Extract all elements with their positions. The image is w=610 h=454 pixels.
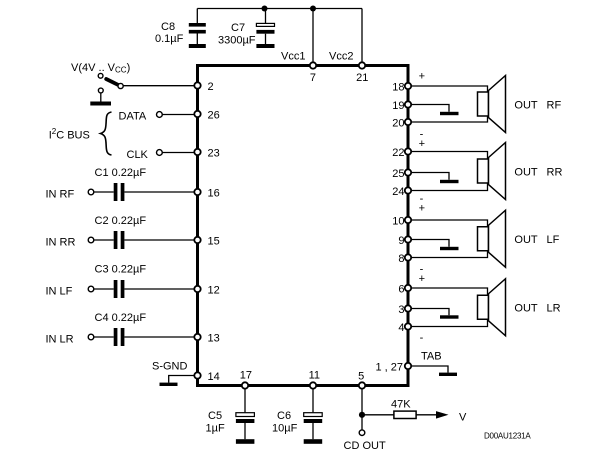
svg-text:14: 14 xyxy=(208,371,220,383)
svg-text:19: 19 xyxy=(392,100,404,112)
svg-text:1µF: 1µF xyxy=(206,423,225,435)
svg-text:C4 0.22µF: C4 0.22µF xyxy=(95,312,147,324)
ground below C8 xyxy=(189,44,206,48)
wire pin 5 to CD OUT xyxy=(361,387,363,430)
ground TAB xyxy=(439,373,457,376)
ground below C7 xyxy=(256,44,274,48)
svg-text:16: 16 xyxy=(208,188,220,200)
ground OUT RR xyxy=(440,180,459,183)
switch SW1 (V(4V .. Vcc)) xyxy=(71,62,194,102)
speaker OUT RR wiring - xyxy=(412,183,488,191)
svg-text:25: 25 xyxy=(392,168,404,180)
pin 2 xyxy=(194,81,213,93)
input IN LR / capacitor C4 xyxy=(46,312,195,346)
pin 9 xyxy=(398,235,411,247)
input IN LF / capacitor C3 xyxy=(46,264,195,299)
svg-text:7: 7 xyxy=(310,72,316,84)
svg-text:DATA: DATA xyxy=(119,111,147,123)
wire top supply rail xyxy=(197,8,362,10)
speaker OUT LF ground wire xyxy=(412,240,449,247)
speaker OUT LR ground wire xyxy=(412,309,449,316)
wire Vcc2 branch to pin 21 xyxy=(361,9,363,65)
svg-text:IN LF: IN LF xyxy=(46,286,73,298)
loudspeaker OUT RF xyxy=(478,76,506,133)
pin 8 xyxy=(398,253,411,265)
svg-text:20: 20 xyxy=(392,118,404,130)
svg-text:+: + xyxy=(419,138,425,150)
svg-text:IN RF: IN RF xyxy=(46,189,75,201)
svg-text:IN RR: IN RR xyxy=(46,237,76,249)
pin 24 xyxy=(392,186,411,198)
svg-text:10: 10 xyxy=(392,216,404,228)
pin 11 xyxy=(309,369,320,388)
svg-text:17: 17 xyxy=(240,369,252,381)
pin 15 xyxy=(194,236,219,248)
speaker OUT RF wiring - xyxy=(412,116,488,122)
svg-text:D00AU1231A: D00AU1231A xyxy=(484,432,531,441)
ground S-GND xyxy=(160,383,178,386)
svg-text:0.1µF: 0.1µF xyxy=(155,33,184,45)
svg-text:OUTLF: OUTLF xyxy=(514,234,559,246)
svg-text:18: 18 xyxy=(392,82,404,94)
svg-text:3300µF: 3300µF xyxy=(218,35,256,47)
wire Vcc1 branch to pin 7 xyxy=(312,9,314,65)
svg-text:13: 13 xyxy=(208,333,220,345)
svg-text:2: 2 xyxy=(208,81,214,93)
pin 22 xyxy=(392,147,411,159)
speaker OUT LR wiring + xyxy=(412,288,488,295)
capacitor C5 (polarized) xyxy=(206,387,255,439)
pin 21 xyxy=(356,62,368,84)
arrow to V xyxy=(436,411,449,419)
svg-text:24: 24 xyxy=(392,186,404,198)
speaker OUT RR wiring + xyxy=(412,152,488,160)
capacitor C7 (polarized) xyxy=(218,9,275,47)
pin 1,27 TAB xyxy=(375,362,411,374)
speaker OUT LF wiring - xyxy=(412,251,488,258)
svg-text:+: + xyxy=(419,71,425,83)
svg-text:Vcc2: Vcc2 xyxy=(329,51,353,63)
ground below switch xyxy=(90,102,111,106)
svg-text:10µF: 10µF xyxy=(272,423,298,435)
speaker OUT LF wiring + xyxy=(412,220,488,227)
svg-text:CD OUT: CD OUT xyxy=(344,440,386,452)
pin 5 xyxy=(358,371,365,389)
svg-text:C5: C5 xyxy=(208,410,222,422)
svg-text:OUTLR: OUTLR xyxy=(514,303,560,315)
svg-text:+: + xyxy=(419,203,425,215)
svg-text:C2 0.22µF: C2 0.22µF xyxy=(95,215,147,227)
svg-text:1 , 27: 1 , 27 xyxy=(375,362,403,374)
pin 12 xyxy=(194,285,219,297)
pin 18 xyxy=(392,82,411,94)
svg-text:S-GND: S-GND xyxy=(152,361,188,373)
svg-text:C7: C7 xyxy=(231,22,245,34)
ground OUT LR xyxy=(440,315,459,318)
svg-text:3: 3 xyxy=(398,304,404,316)
input IN RF / capacitor C1 xyxy=(46,167,195,201)
svg-text:TAB: TAB xyxy=(421,351,442,363)
svg-text:+: + xyxy=(419,273,425,285)
pin 23 xyxy=(194,148,219,160)
svg-text:9: 9 xyxy=(398,235,404,247)
speaker OUT LR wiring - xyxy=(412,319,488,326)
pin 7 xyxy=(310,62,316,84)
pin 25 xyxy=(392,168,411,180)
junction dot pin5 node xyxy=(359,412,365,418)
svg-text:C3 0.22µF: C3 0.22µF xyxy=(95,264,147,276)
pin 3 xyxy=(398,304,411,316)
pin 4 xyxy=(398,322,411,334)
svg-text:11: 11 xyxy=(309,369,320,381)
pin 13 xyxy=(194,333,219,345)
svg-text:6: 6 xyxy=(398,284,404,296)
brace I2C bus xyxy=(101,112,112,155)
terminal CLK xyxy=(127,149,195,161)
pin 6 xyxy=(398,284,411,296)
loudspeaker OUT LF xyxy=(478,210,506,267)
svg-text:23: 23 xyxy=(208,148,220,160)
svg-text:CLK: CLK xyxy=(127,149,149,161)
ground OUT RF xyxy=(440,112,459,115)
pin 10 xyxy=(392,216,411,228)
loudspeaker OUT LR xyxy=(478,279,506,336)
junction dot at C7 tap xyxy=(262,6,268,12)
svg-text:C1 0.22µF: C1 0.22µF xyxy=(95,167,147,179)
ground below C5 xyxy=(236,439,255,444)
svg-text:C6: C6 xyxy=(277,410,291,422)
ground OUT LF xyxy=(440,247,459,250)
terminal CD OUT xyxy=(344,430,386,452)
svg-text:26: 26 xyxy=(208,110,220,122)
S-GND net on pin 14 xyxy=(152,361,194,383)
svg-text:-: - xyxy=(420,332,424,344)
IC U1 body xyxy=(198,66,409,386)
pin 20 xyxy=(392,118,411,130)
speaker OUT RR ground wire xyxy=(412,173,449,180)
pin 17 xyxy=(240,369,252,388)
svg-text:22: 22 xyxy=(392,147,404,159)
terminal DATA xyxy=(119,111,195,123)
input IN RR / capacitor C2 xyxy=(46,215,195,249)
svg-text:IN LR: IN LR xyxy=(46,334,74,346)
svg-text:V: V xyxy=(459,412,467,424)
pin 26 xyxy=(194,110,219,122)
svg-text:47K: 47K xyxy=(391,399,411,411)
TAB net xyxy=(412,351,448,373)
pin 16 xyxy=(194,188,219,200)
pin 14 xyxy=(194,371,219,383)
svg-text:15: 15 xyxy=(208,236,220,248)
pin 19 xyxy=(392,100,411,112)
svg-text:8: 8 xyxy=(398,253,404,265)
speaker OUT RF ground wire xyxy=(412,105,449,112)
loudspeaker OUT RR xyxy=(478,143,506,200)
svg-text:4: 4 xyxy=(398,322,404,334)
capacitor C6 (polarized) xyxy=(272,387,322,439)
speaker OUT RF wiring + xyxy=(412,86,488,92)
svg-text:5: 5 xyxy=(358,371,364,383)
resistor R 47K xyxy=(362,399,437,419)
svg-text:12: 12 xyxy=(208,285,220,297)
svg-text:C8: C8 xyxy=(161,21,175,33)
capacitor C8 xyxy=(155,9,206,46)
svg-text:Vcc1: Vcc1 xyxy=(281,51,305,63)
ground below C6 xyxy=(304,439,323,444)
junction dot at Vcc1 tap xyxy=(310,6,316,12)
svg-text:21: 21 xyxy=(356,72,368,84)
